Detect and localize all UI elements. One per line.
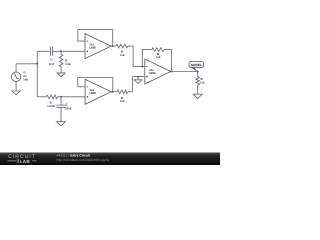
wire V1 branch to vertical rail bbox=[16, 63, 37, 65]
svg-text:LM386: LM386 bbox=[149, 71, 155, 75]
wire OA2 feedback top bbox=[78, 77, 113, 79]
svg-text:1 MHz: 1 MHz bbox=[23, 78, 28, 82]
C1 value label bbox=[49, 58, 55, 66]
C2 value label bbox=[65, 103, 72, 111]
svg-text:http://circuitlab.com/c66k9hfm: http://circuitlab.com/c66k9hfmoqy8a bbox=[57, 158, 110, 162]
wire C2 bottom stub bbox=[60, 107, 62, 121]
wire OA1 feedback riser bbox=[112, 30, 114, 47]
svg-text:10 nF: 10 nF bbox=[49, 62, 55, 66]
op-amp OA3 bbox=[145, 59, 171, 84]
svg-text:LM386: LM386 bbox=[90, 45, 96, 49]
voltage source V1 bbox=[11, 72, 20, 81]
wire OA1 output bbox=[111, 45, 116, 47]
wire OA3 output bbox=[171, 71, 198, 73]
R1 value label bbox=[47, 101, 55, 109]
wire vertical rail x=37 bbox=[36, 51, 38, 97]
node junction C1/R2 bbox=[60, 50, 62, 52]
R5 value label bbox=[156, 52, 161, 59]
wire OA2 feedback into inverting input bbox=[78, 86, 85, 88]
node junction R1/C2 bbox=[60, 96, 62, 98]
svg-text:100 nF: 100 nF bbox=[65, 106, 72, 110]
resistor R6 bbox=[196, 72, 200, 95]
wire OA1 feedback into inverting input bbox=[78, 40, 85, 42]
wire C2 top stub bbox=[60, 97, 62, 105]
capacitor C2 bbox=[57, 105, 66, 107]
svg-text:1 kΩ: 1 kΩ bbox=[200, 81, 205, 85]
svg-text:10 kΩ: 10 kΩ bbox=[65, 62, 71, 66]
resistor R5 bbox=[152, 48, 164, 52]
R3 value label bbox=[120, 50, 125, 57]
svg-text:LAB: LAB bbox=[20, 159, 31, 164]
svg-text:LM386: LM386 bbox=[90, 91, 96, 95]
wire bottom rail R1 to OA2 bbox=[58, 96, 86, 98]
svg-text:C1: C1 bbox=[50, 58, 52, 62]
node name flag NODE1 bbox=[189, 62, 204, 72]
R2 value label bbox=[65, 58, 71, 66]
resistor R4 bbox=[117, 90, 128, 94]
wire into OA3 noninverting input bbox=[133, 76, 145, 78]
resistor R1 bbox=[46, 95, 58, 99]
V1 value label bbox=[23, 71, 28, 82]
ground under R6 bbox=[193, 94, 202, 98]
svg-text:1 kΩ: 1 kΩ bbox=[120, 53, 125, 57]
svg-text:1 kΩ: 1 kΩ bbox=[156, 55, 161, 59]
svg-text:NODE1: NODE1 bbox=[191, 63, 202, 67]
ground at OA3 noninverting input bbox=[134, 80, 142, 84]
ground under C2 bbox=[57, 122, 66, 126]
R4 value label bbox=[120, 96, 125, 103]
node junction ground tap bbox=[137, 76, 139, 78]
wire OA1 feedback top bbox=[78, 29, 113, 31]
wire ground stub bbox=[137, 77, 139, 80]
svg-text:1 kΩ: 1 kΩ bbox=[120, 99, 125, 103]
R6 value label bbox=[200, 77, 205, 85]
node junction at branch bbox=[36, 63, 38, 65]
wire riser up to OA3 noninverting bbox=[132, 77, 134, 92]
ground under R2 bbox=[57, 73, 65, 77]
resistor R3 bbox=[116, 44, 128, 48]
wire R4 to riser corner bbox=[128, 91, 133, 93]
wire V1 top stub bbox=[15, 64, 17, 72]
wire R3 to corner bbox=[128, 45, 133, 47]
node junction OA3 output/feedback bbox=[171, 71, 173, 73]
wire into OA3 inverting input bbox=[133, 66, 145, 68]
wire corner down bbox=[132, 46, 134, 66]
wire top rail left of C1 bbox=[37, 50, 50, 52]
svg-text:#43312 / Extra Circuit: #43312 / Extra Circuit bbox=[57, 153, 91, 157]
svg-text:1.4 kΩ: 1.4 kΩ bbox=[47, 104, 55, 108]
op-amp OA2 bbox=[85, 79, 111, 104]
wire OA2 feedback riser bbox=[112, 78, 114, 92]
wire top rail C1 to OA1 bbox=[53, 50, 86, 52]
CircuitLab logo bbox=[8, 154, 37, 164]
resistor R2 bbox=[59, 51, 63, 73]
wire bottom rail left of R1 bbox=[37, 96, 46, 98]
wire R5 to output riser bbox=[164, 50, 171, 72]
capacitor C1 bbox=[51, 47, 53, 56]
footer bar bbox=[0, 153, 220, 166]
op-amp OA1 bbox=[85, 34, 111, 59]
wire V1 bottom stub bbox=[15, 81, 17, 91]
wire OA1 feedback down bbox=[77, 30, 79, 42]
node junction feedback tap bbox=[141, 66, 143, 68]
node junction OA2 output bbox=[111, 91, 113, 93]
ground under V1 bbox=[12, 91, 20, 95]
wire OA2 output bbox=[111, 91, 117, 93]
node junction OA1 output bbox=[111, 45, 113, 47]
wire R5 riser bbox=[142, 50, 152, 67]
node junction output/R6 bbox=[197, 71, 199, 73]
wire OA2 feedback down bbox=[77, 78, 79, 87]
